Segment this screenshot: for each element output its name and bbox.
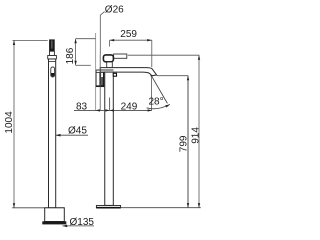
svg-text:1004: 1004: [4, 111, 15, 134]
svg-text:799: 799: [178, 135, 189, 152]
svg-text:914: 914: [190, 127, 201, 144]
svg-text:259: 259: [120, 29, 137, 40]
svg-text:Ø45: Ø45: [68, 126, 87, 137]
svg-text:28°: 28°: [149, 97, 164, 108]
svg-text:Ø135: Ø135: [70, 217, 95, 228]
svg-text:83: 83: [76, 101, 88, 112]
svg-text:249: 249: [121, 101, 138, 112]
svg-text:Ø26: Ø26: [105, 4, 124, 15]
svg-text:186: 186: [65, 47, 76, 64]
